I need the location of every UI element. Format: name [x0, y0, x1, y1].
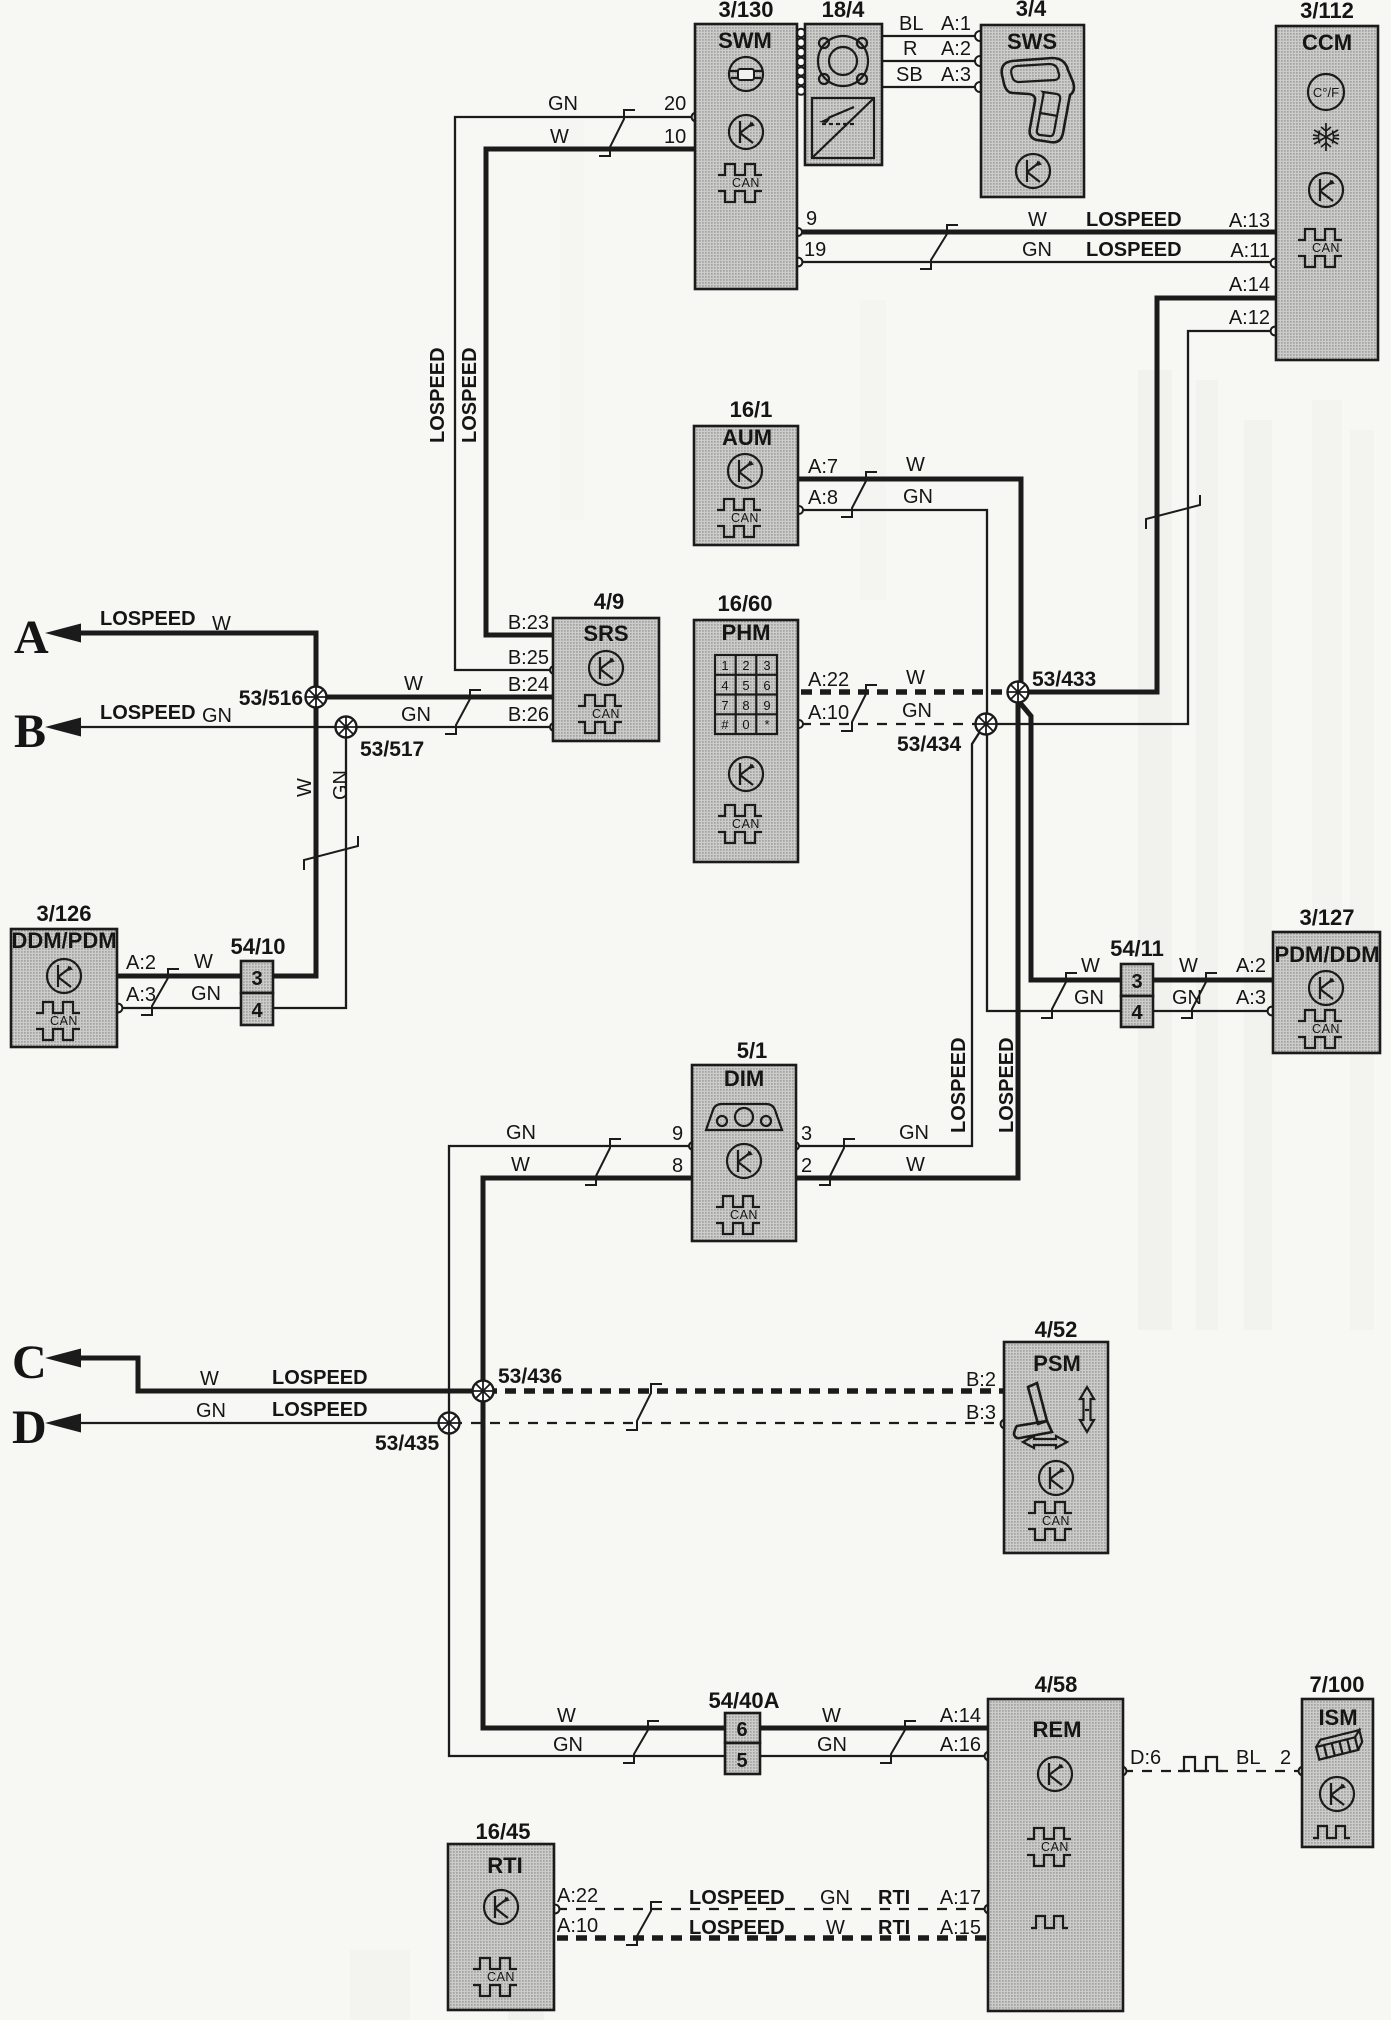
- svg-text:4: 4: [721, 678, 728, 693]
- svg-text:GN: GN: [548, 93, 578, 115]
- svg-text:GN: GN: [401, 704, 431, 726]
- svg-text:3: 3: [763, 658, 770, 673]
- svg-text:A:17: A:17: [940, 1887, 981, 1909]
- svg-text:5: 5: [736, 1750, 747, 1772]
- svg-text:2: 2: [742, 658, 749, 673]
- svg-text:8: 8: [672, 1155, 683, 1177]
- svg-text:A:8: A:8: [808, 487, 838, 509]
- svg-text:3/130: 3/130: [718, 0, 773, 22]
- svg-text:B:24: B:24: [508, 674, 549, 696]
- svg-text:LOSPEED: LOSPEED: [689, 1917, 785, 1939]
- svg-text:5/1: 5/1: [737, 1038, 768, 1063]
- svg-text:W: W: [822, 1705, 841, 1727]
- svg-text:W: W: [906, 454, 925, 476]
- svg-text:A:11: A:11: [1230, 240, 1270, 262]
- svg-text:GN: GN: [820, 1887, 850, 1909]
- svg-text:3: 3: [1131, 971, 1142, 993]
- svg-text:A:3: A:3: [941, 64, 971, 86]
- svg-text:DIM: DIM: [724, 1066, 764, 1091]
- svg-text:REM: REM: [1033, 1717, 1082, 1742]
- svg-text:3/112: 3/112: [1300, 0, 1354, 23]
- svg-text:5: 5: [742, 678, 749, 693]
- svg-text:PHM: PHM: [722, 620, 771, 645]
- svg-text:19: 19: [804, 239, 826, 261]
- svg-text:4: 4: [251, 1000, 263, 1022]
- svg-text:GN: GN: [191, 983, 221, 1005]
- svg-text:3: 3: [801, 1123, 812, 1145]
- svg-text:DDM/PDM: DDM/PDM: [11, 928, 116, 953]
- svg-text:GN: GN: [202, 705, 232, 727]
- svg-text:6: 6: [763, 678, 770, 693]
- svg-text:GN: GN: [1172, 987, 1202, 1009]
- svg-text:GN: GN: [1074, 987, 1104, 1009]
- svg-text:C: C: [12, 1336, 47, 1389]
- svg-text:53/434: 53/434: [897, 733, 962, 756]
- svg-text:LOSPEED: LOSPEED: [948, 1037, 970, 1133]
- svg-text:RTI: RTI: [878, 1887, 910, 1909]
- svg-text:D:6: D:6: [1130, 1747, 1161, 1769]
- svg-text:9: 9: [806, 208, 817, 230]
- svg-text:B:26: B:26: [508, 704, 549, 726]
- svg-text:7/100: 7/100: [1309, 1672, 1364, 1697]
- svg-text:3: 3: [251, 968, 262, 990]
- svg-text:6: 6: [736, 1719, 747, 1741]
- svg-text:53/435: 53/435: [375, 1432, 440, 1455]
- svg-text:54/11: 54/11: [1110, 936, 1164, 961]
- svg-text:A:2: A:2: [1236, 955, 1266, 977]
- svg-text:LOSPEED: LOSPEED: [427, 347, 449, 443]
- svg-text:LOSPEED: LOSPEED: [459, 347, 481, 443]
- svg-text:A:1: A:1: [941, 13, 971, 35]
- svg-text:53/433: 53/433: [1032, 668, 1096, 691]
- svg-text:16/45: 16/45: [475, 1819, 530, 1844]
- svg-text:A:2: A:2: [941, 38, 971, 60]
- svg-text:C°/F: C°/F: [1313, 85, 1339, 100]
- svg-text:53/517: 53/517: [360, 738, 424, 761]
- svg-text:BL: BL: [899, 13, 923, 35]
- svg-text:W: W: [550, 126, 569, 148]
- svg-text:BL: BL: [1236, 1747, 1260, 1769]
- svg-text:A:12: A:12: [1229, 307, 1270, 329]
- svg-text:LOSPEED: LOSPEED: [1086, 209, 1182, 231]
- svg-text:W: W: [557, 1705, 576, 1727]
- svg-text:SWM: SWM: [718, 28, 772, 53]
- svg-text:A:3: A:3: [126, 984, 156, 1006]
- svg-text:SWS: SWS: [1007, 29, 1057, 54]
- svg-text:54/10: 54/10: [230, 934, 285, 959]
- svg-text:RTI: RTI: [878, 1917, 910, 1939]
- svg-text:#: #: [721, 717, 729, 732]
- svg-text:A: A: [14, 611, 49, 664]
- svg-text:GN: GN: [196, 1400, 226, 1422]
- svg-text:53/436: 53/436: [498, 1365, 562, 1388]
- svg-text:W: W: [200, 1368, 219, 1390]
- svg-text:W: W: [1081, 955, 1100, 977]
- svg-text:GN: GN: [1022, 239, 1052, 261]
- svg-text:16/1: 16/1: [730, 397, 773, 422]
- svg-text:2: 2: [1280, 1747, 1291, 1769]
- svg-text:7: 7: [721, 698, 728, 713]
- svg-text:GN: GN: [553, 1734, 583, 1756]
- svg-text:SB: SB: [896, 64, 923, 86]
- svg-text:W: W: [826, 1917, 845, 1939]
- svg-text:GN: GN: [506, 1122, 536, 1144]
- svg-text:R: R: [903, 38, 917, 60]
- svg-text:W: W: [212, 613, 231, 635]
- svg-text:W: W: [1028, 209, 1047, 231]
- svg-text:4/52: 4/52: [1035, 1317, 1078, 1342]
- svg-text:4/9: 4/9: [594, 589, 625, 614]
- svg-text:LOSPEED: LOSPEED: [272, 1399, 368, 1421]
- svg-text:GN: GN: [903, 486, 933, 508]
- svg-text:A:16: A:16: [940, 1734, 981, 1756]
- svg-text:A:14: A:14: [940, 1705, 981, 1727]
- svg-text:4/58: 4/58: [1035, 1672, 1078, 1697]
- svg-text:W: W: [294, 778, 316, 797]
- svg-text:9: 9: [763, 698, 770, 713]
- svg-text:LOSPEED: LOSPEED: [689, 1887, 785, 1909]
- svg-text:54/40A: 54/40A: [709, 1688, 780, 1713]
- svg-text:GN: GN: [902, 700, 932, 722]
- svg-text:3/126: 3/126: [36, 901, 91, 926]
- svg-text:9: 9: [672, 1123, 683, 1145]
- svg-text:LOSPEED: LOSPEED: [100, 702, 196, 724]
- svg-text:AUM: AUM: [722, 425, 772, 450]
- svg-text:2: 2: [801, 1155, 812, 1177]
- svg-text:18/4: 18/4: [822, 0, 866, 22]
- svg-text:A:10: A:10: [557, 1915, 598, 1937]
- svg-text:A:14: A:14: [1229, 274, 1270, 296]
- svg-text:B: B: [14, 705, 46, 758]
- svg-text:B:23: B:23: [508, 612, 549, 634]
- svg-text:W: W: [404, 673, 423, 695]
- svg-text:B:3: B:3: [966, 1402, 996, 1424]
- svg-text:GN: GN: [330, 770, 352, 800]
- svg-text:3/127: 3/127: [1299, 905, 1354, 930]
- svg-text:LOSPEED: LOSPEED: [272, 1367, 368, 1389]
- svg-text:A:22: A:22: [808, 669, 849, 691]
- svg-text:20: 20: [664, 93, 686, 115]
- svg-text:GN: GN: [817, 1734, 847, 1756]
- svg-text:CCM: CCM: [1302, 30, 1352, 55]
- svg-text:PDM/DDM: PDM/DDM: [1274, 942, 1379, 967]
- svg-text:A:3: A:3: [1236, 987, 1266, 1009]
- svg-text:A:2: A:2: [126, 952, 156, 974]
- svg-text:A:7: A:7: [808, 456, 838, 478]
- svg-text:W: W: [906, 1154, 925, 1176]
- svg-text:A:15: A:15: [940, 1917, 981, 1939]
- svg-text:LOSPEED: LOSPEED: [100, 608, 196, 630]
- svg-text:53/516: 53/516: [239, 687, 303, 710]
- svg-text:0: 0: [742, 717, 749, 732]
- svg-text:RTI: RTI: [487, 1853, 522, 1878]
- svg-text:ISM: ISM: [1318, 1705, 1357, 1730]
- svg-text:3/4: 3/4: [1016, 0, 1047, 21]
- svg-text:PSM: PSM: [1033, 1351, 1081, 1376]
- svg-text:LOSPEED: LOSPEED: [996, 1037, 1018, 1133]
- svg-text:B:2: B:2: [966, 1369, 996, 1391]
- svg-text:10: 10: [664, 126, 686, 148]
- svg-text:1: 1: [721, 658, 728, 673]
- svg-text:4: 4: [1131, 1002, 1143, 1024]
- svg-text:W: W: [1179, 955, 1198, 977]
- svg-text:GN: GN: [899, 1122, 929, 1144]
- svg-text:W: W: [511, 1154, 530, 1176]
- svg-text:8: 8: [742, 698, 749, 713]
- svg-text:LOSPEED: LOSPEED: [1086, 239, 1182, 261]
- svg-text:B:25: B:25: [508, 647, 549, 669]
- svg-text:A:13: A:13: [1229, 210, 1270, 232]
- svg-text:16/60: 16/60: [717, 591, 772, 616]
- svg-text:A:22: A:22: [557, 1885, 598, 1907]
- svg-text:A:10: A:10: [808, 702, 849, 724]
- svg-text:W: W: [906, 667, 925, 689]
- svg-text:D: D: [12, 1401, 47, 1454]
- svg-text:*: *: [764, 717, 769, 732]
- svg-text:W: W: [194, 951, 213, 973]
- svg-text:SRS: SRS: [583, 621, 628, 646]
